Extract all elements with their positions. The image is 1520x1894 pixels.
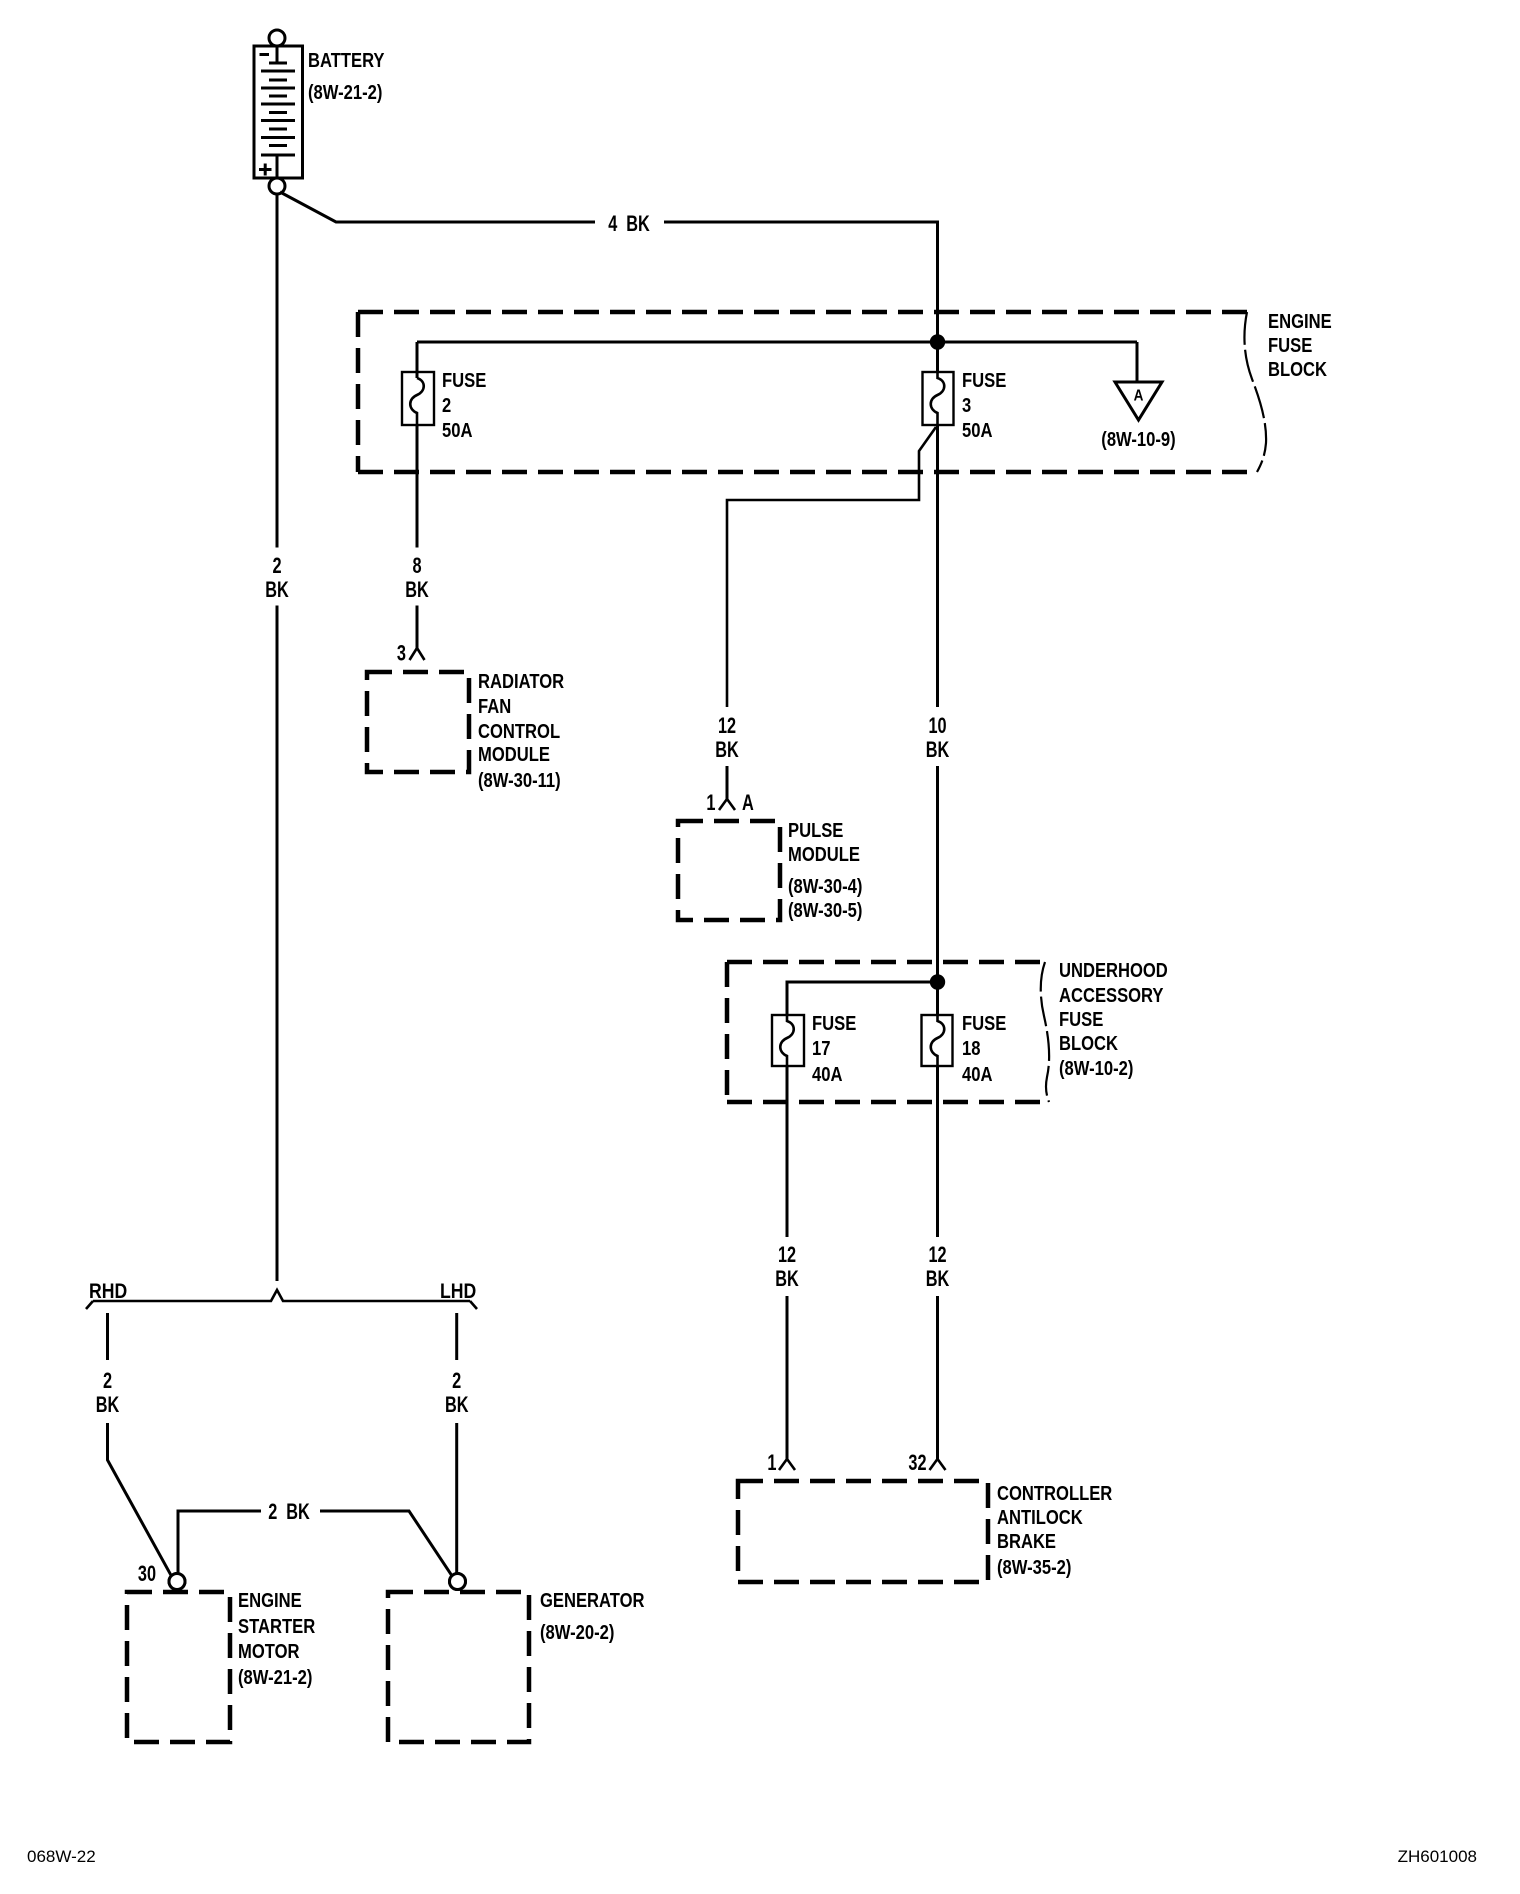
svg-text:(8W-30-11): (8W-30-11) <box>478 770 561 792</box>
pin 1 connector fork controller <box>779 1459 795 1470</box>
wire fuse2 down lower <box>416 606 419 649</box>
svg-text:BK: BK <box>405 577 429 602</box>
wire fuse17 down lower <box>786 1296 789 1459</box>
wire 4 BK right segment <box>664 222 938 372</box>
svg-text:(8W-10-9): (8W-10-9) <box>1101 429 1175 451</box>
RHD LHD splice split <box>93 1290 470 1301</box>
terminal circle generator redraw <box>450 1574 466 1590</box>
svg-text:BRAKE: BRAKE <box>997 1531 1056 1553</box>
svg-text:FUSE: FUSE <box>962 370 1006 392</box>
pulse module box <box>678 821 780 920</box>
svg-text:RHD: RHD <box>89 1280 127 1303</box>
node junction at fuse 3 feed <box>931 336 943 348</box>
svg-text:FUSE: FUSE <box>442 370 486 392</box>
svg-text:(8W-21-2): (8W-21-2) <box>238 1667 312 1689</box>
svg-text:BK: BK <box>715 737 739 762</box>
fuse F2 body <box>402 372 434 425</box>
svg-text:8: 8 <box>412 553 421 578</box>
wire LHD branch <box>455 1313 458 1360</box>
svg-text:MODULE: MODULE <box>788 844 860 866</box>
controller antilock brake box <box>738 1481 988 1582</box>
wire pulse module drop <box>726 766 729 799</box>
radiator fan control module box <box>367 672 469 772</box>
svg-text:LHD: LHD <box>440 1280 476 1303</box>
svg-text:3: 3 <box>397 641 406 666</box>
ground symbol A triangle <box>1115 382 1162 420</box>
battery <box>254 30 303 194</box>
svg-text:40A: 40A <box>812 1064 843 1086</box>
svg-text:12: 12 <box>778 1242 796 1267</box>
wire 2 BK jumper right part <box>320 1511 452 1576</box>
svg-text:BK: BK <box>775 1266 799 1291</box>
svg-text:(8W-30-4): (8W-30-4) <box>788 876 862 898</box>
wire fuse3 branch diagonal <box>727 427 936 707</box>
underhood accessory fuse block box <box>727 962 1049 1102</box>
wire 10 BK lower <box>936 766 939 1015</box>
wire RHD branch lower <box>108 1423 172 1576</box>
svg-text:UNDERHOOD: UNDERHOOD <box>1059 960 1168 982</box>
terminal circle starter <box>169 1574 185 1590</box>
svg-text:50A: 50A <box>962 420 993 442</box>
fuse F17 body <box>772 1015 804 1066</box>
wire fuse18 down <box>936 1066 939 1237</box>
svg-text:12: 12 <box>718 713 736 738</box>
wire fuse17 down <box>786 1066 789 1237</box>
svg-text:A: A <box>742 790 754 815</box>
svg-text:2: 2 <box>103 1368 112 1393</box>
generator box <box>388 1592 529 1742</box>
pin 3 connector fork <box>410 648 425 660</box>
svg-text:068W-22: 068W-22 <box>27 1847 96 1866</box>
svg-text:17: 17 <box>812 1038 831 1060</box>
svg-text:FUSE: FUSE <box>1268 335 1312 357</box>
svg-text:2: 2 <box>442 395 451 417</box>
pin 1 A connector fork <box>719 799 735 810</box>
svg-text:GENERATOR: GENERATOR <box>540 1590 645 1612</box>
terminal circle starter redraw <box>169 1574 185 1590</box>
svg-text:BLOCK: BLOCK <box>1268 359 1327 381</box>
splice end tick right <box>470 1301 477 1309</box>
wire fuse block bus <box>417 341 1137 344</box>
svg-text:BK: BK <box>926 737 950 762</box>
svg-text:BK: BK <box>926 1266 950 1291</box>
svg-text:3: 3 <box>962 395 971 417</box>
svg-text:30: 30 <box>138 1561 156 1586</box>
svg-text:CONTROL: CONTROL <box>478 721 560 743</box>
splice end tick left <box>86 1301 93 1309</box>
wire RHD branch <box>106 1313 109 1360</box>
svg-text:2: 2 <box>452 1368 461 1393</box>
svg-text:BK: BK <box>445 1392 469 1417</box>
svg-text:1: 1 <box>706 790 715 815</box>
svg-text:1: 1 <box>767 1450 776 1475</box>
svg-text:ANTILOCK: ANTILOCK <box>997 1507 1083 1529</box>
svg-text:FUSE: FUSE <box>962 1013 1006 1035</box>
svg-text:10: 10 <box>928 713 946 738</box>
wire to ground symbol A <box>1136 342 1139 382</box>
svg-text:40A: 40A <box>962 1064 993 1086</box>
svg-text:12: 12 <box>928 1242 946 1267</box>
engine fuse block box <box>358 312 1258 472</box>
wire battery positive down lower part <box>276 606 279 1282</box>
svg-text:ENGINE: ENGINE <box>238 1590 302 1612</box>
wire 4 BK diagonal from battery <box>280 192 595 222</box>
svg-text:BK: BK <box>265 577 289 602</box>
wire fuse2 top <box>416 342 419 378</box>
svg-text:(8W-10-2): (8W-10-2) <box>1059 1058 1133 1080</box>
svg-text:(8W-35-2): (8W-35-2) <box>997 1557 1071 1579</box>
node junction underhood <box>931 976 943 988</box>
svg-text:RADIATOR: RADIATOR <box>478 671 565 693</box>
wire battery positive down <box>276 194 279 548</box>
svg-text:BK: BK <box>96 1392 120 1417</box>
svg-text:A: A <box>1134 388 1144 405</box>
fuse F18 element <box>931 1015 945 1066</box>
svg-text:32: 32 <box>908 1450 926 1475</box>
wire fuse18 down lower <box>936 1296 939 1459</box>
wire fuse2 down <box>416 425 419 548</box>
svg-text:ACCESSORY: ACCESSORY <box>1059 985 1164 1007</box>
svg-text:MODULE: MODULE <box>478 744 550 766</box>
engine starter motor box <box>127 1592 230 1742</box>
svg-text:(8W-21-2): (8W-21-2) <box>308 82 382 104</box>
fuse F3 element <box>931 372 945 425</box>
svg-text:BLOCK: BLOCK <box>1059 1033 1118 1055</box>
wire LHD branch lower <box>455 1423 458 1574</box>
svg-text:(8W-30-5): (8W-30-5) <box>788 900 862 922</box>
svg-text:18: 18 <box>962 1038 981 1060</box>
svg-text:(8W-20-2): (8W-20-2) <box>540 1622 614 1644</box>
svg-text:STARTER: STARTER <box>238 1616 316 1638</box>
svg-text:BATTERY: BATTERY <box>308 50 385 72</box>
fuse F3 body <box>923 372 954 425</box>
svg-text:50A: 50A <box>442 420 473 442</box>
svg-text:PULSE: PULSE <box>788 820 843 842</box>
svg-text:4 BK: 4 BK <box>608 211 650 236</box>
pin 32 connector fork controller <box>930 1459 946 1470</box>
wire branch to fuse 17 <box>787 982 938 1015</box>
fuse F17 element <box>780 1015 794 1066</box>
underhood fuse block torn edge <box>1041 962 1049 1102</box>
fuse F18 body <box>922 1015 953 1066</box>
svg-text:2 BK: 2 BK <box>268 1499 310 1524</box>
svg-text:ENGINE: ENGINE <box>1268 311 1332 333</box>
svg-text:FAN: FAN <box>478 696 511 718</box>
svg-text:FUSE: FUSE <box>812 1013 856 1035</box>
svg-text:FUSE: FUSE <box>1059 1009 1103 1031</box>
wire fuse3 main down <box>936 425 939 707</box>
terminal circle generator <box>450 1574 466 1590</box>
wire 2 BK jumper starter to generator <box>178 1511 261 1574</box>
svg-text:ZH601008: ZH601008 <box>1398 1847 1477 1866</box>
svg-text:MOTOR: MOTOR <box>238 1641 300 1663</box>
svg-text:CONTROLLER: CONTROLLER <box>997 1483 1113 1505</box>
fuse F2 element <box>410 378 424 425</box>
engine fuse block torn edge <box>1244 312 1266 472</box>
svg-text:2: 2 <box>272 553 281 578</box>
